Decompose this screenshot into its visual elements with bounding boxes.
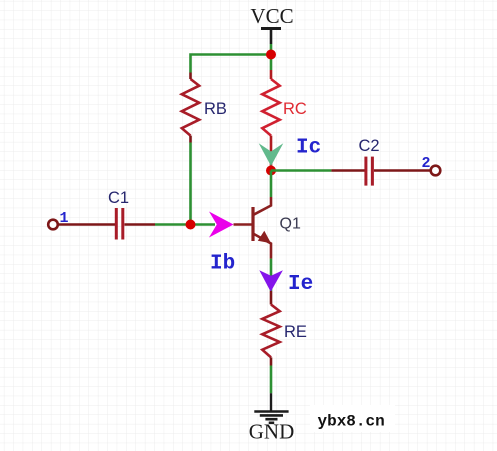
capacitor C2	[359, 137, 380, 186]
wire RB bottom to node B	[189, 143, 192, 225]
resistor RB	[182, 73, 227, 143]
wire collector node down to Q1 collector	[270, 171, 273, 198]
current arrow Ib	[209, 212, 234, 238]
node collector junction	[266, 166, 276, 176]
resistor RC	[262, 70, 307, 166]
svg-text:Ie: Ie	[288, 273, 313, 296]
terminal 2	[422, 155, 441, 175]
transistor Q1	[253, 197, 301, 259]
svg-text:Ib: Ib	[210, 253, 235, 276]
wire RE bottom to ground (green)	[270, 366, 273, 394]
svg-text:2: 2	[422, 155, 431, 172]
watermark ybx8.cn	[310, 405, 395, 432]
svg-text:RE: RE	[284, 323, 307, 341]
node B junction	[186, 220, 196, 230]
svg-text:C1: C1	[108, 189, 129, 207]
current arrow Ie	[259, 270, 283, 292]
wire top node down to RC	[270, 55, 273, 71]
terminal 1	[48, 210, 68, 229]
wire terminal 1 to C1	[59, 223, 116, 226]
wire collector node to C2 (green)	[271, 169, 331, 172]
svg-text:C2: C2	[359, 137, 380, 155]
svg-text:RC: RC	[283, 100, 307, 118]
current arrow Ic	[259, 143, 284, 166]
svg-text:GND: GND	[249, 420, 295, 444]
wire to C2 (maroon)	[331, 169, 365, 172]
svg-text:ybx8.cn: ybx8.cn	[318, 413, 385, 431]
wire C1 to node B (maroon then green)	[125, 223, 156, 226]
svg-text:RB: RB	[204, 100, 227, 118]
power symbol VCC	[250, 4, 293, 44]
wire emitter down (green)	[270, 259, 273, 291]
wire VCC stub to top node	[270, 44, 273, 55]
wire arrow tip to base	[234, 223, 253, 226]
capacitor C1	[108, 189, 129, 240]
ground	[249, 393, 295, 443]
svg-text:Q1: Q1	[280, 216, 301, 233]
resistor RE	[262, 291, 307, 366]
wire top node to RB branch	[191, 55, 272, 73]
svg-text:VCC: VCC	[250, 4, 293, 28]
wire green into node B	[155, 223, 215, 226]
wire C2 to terminal 2	[374, 169, 430, 172]
node VCC junction	[266, 50, 276, 60]
svg-text:Ic: Ic	[296, 137, 321, 160]
